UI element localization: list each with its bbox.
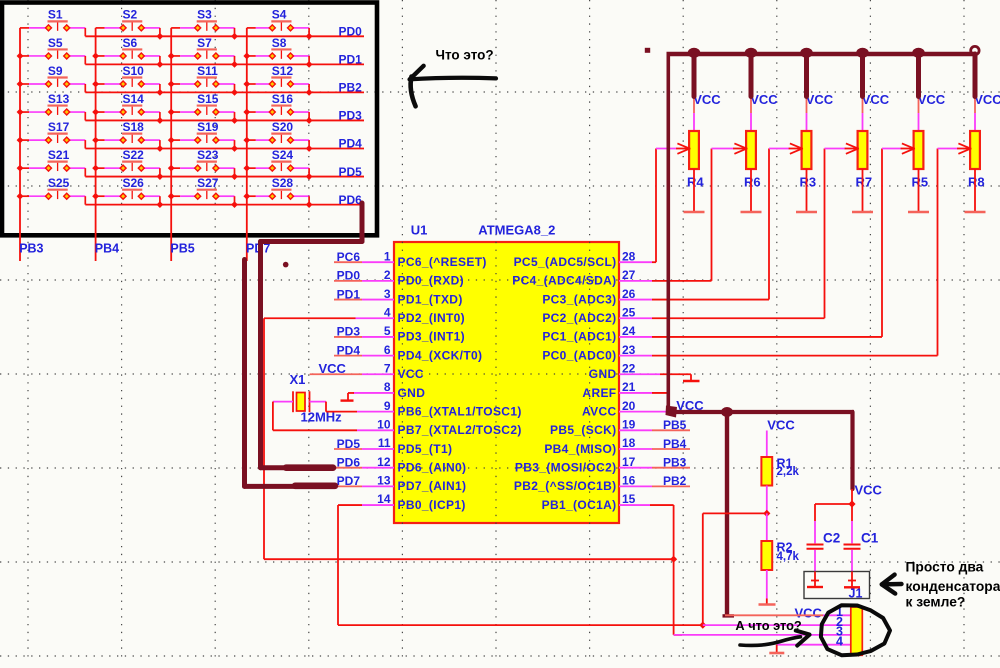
wire row PD1 <box>85 61 364 68</box>
svg-text:Просто два: Просто два <box>906 560 984 575</box>
switch S14 <box>96 106 160 121</box>
svg-text:S5: S5 <box>48 36 63 50</box>
svg-text:VCC: VCC <box>974 92 1000 107</box>
annotation curved arrow at connector <box>740 631 810 646</box>
svg-text:PC2_(ADC2): PC2_(ADC2) <box>542 311 616 325</box>
svg-text:S21: S21 <box>48 148 70 162</box>
svg-text:S14: S14 <box>123 92 145 106</box>
wire crystal left plate to pin 10 (XTAL2) <box>273 402 394 431</box>
switch S2 <box>96 21 160 36</box>
svg-text:PB0_(ICP1): PB0_(ICP1) <box>398 498 466 512</box>
wire pin 13 (PD7) <box>334 485 394 487</box>
svg-text:S26: S26 <box>123 176 145 190</box>
wire arrow into R7 <box>825 143 859 153</box>
switch S13 <box>20 106 85 121</box>
switch S10 <box>96 78 160 93</box>
switch S18 <box>96 134 160 149</box>
wire connector pin 4 <box>777 644 851 646</box>
ground (R7 bottom) <box>852 169 873 212</box>
svg-text:R8: R8 <box>968 175 985 190</box>
switch S22 <box>96 162 160 177</box>
svg-text:2: 2 <box>384 268 391 282</box>
wire pin 27 (PC4) to resistor bank <box>619 149 712 281</box>
svg-text:ATMEGA8_2: ATMEGA8_2 <box>478 223 555 238</box>
svg-text:PD4: PD4 <box>337 343 361 357</box>
svg-text:PB5_(SCK): PB5_(SCK) <box>550 423 617 437</box>
svg-text:14: 14 <box>377 492 391 506</box>
maroon stray dash near bus start <box>645 48 650 53</box>
wire pin 26 (PC3) to resistor bank <box>619 149 769 300</box>
svg-text:S18: S18 <box>123 120 145 134</box>
svg-text:PB2: PB2 <box>663 474 687 488</box>
svg-text:S19: S19 <box>197 120 219 134</box>
wire row PB2 <box>85 89 364 96</box>
svg-text:VCC: VCC <box>918 92 946 107</box>
svg-text:VCC: VCC <box>862 92 890 107</box>
keypad matrix enclosure box <box>2 3 377 236</box>
ground (pin 8 GND) <box>341 393 395 401</box>
svg-text:19: 19 <box>622 418 636 432</box>
wire pin 2 (PD0) <box>334 280 394 282</box>
svg-text:S7: S7 <box>197 36 212 50</box>
junction VCC/C1 <box>848 500 855 507</box>
junction R1/R2 divider tap <box>763 510 770 517</box>
resistor R5 <box>914 97 924 169</box>
svg-text:S25: S25 <box>48 176 70 190</box>
svg-text:27: 27 <box>622 268 636 282</box>
switch S15 <box>171 106 234 121</box>
maroon stray dot near U1 <box>283 262 289 268</box>
svg-text:U1: U1 <box>411 223 428 238</box>
svg-text:S6: S6 <box>123 36 138 50</box>
svg-text:VCC: VCC <box>855 483 883 498</box>
wire column PB3 <box>17 28 24 261</box>
ground (R3 bottom) <box>796 169 817 212</box>
svg-text:PD1: PD1 <box>337 287 361 301</box>
wire PD7 matrix column to U1 pin 13 (thick) <box>245 260 336 487</box>
switch S25 <box>20 190 85 205</box>
svg-text:PD0: PD0 <box>339 25 363 39</box>
svg-text:S11: S11 <box>197 64 218 78</box>
wire pin 16 (PB2) <box>619 485 690 487</box>
svg-text:PB2: PB2 <box>339 81 363 95</box>
svg-text:PD7: PD7 <box>337 474 361 488</box>
svg-text:GND: GND <box>398 386 426 400</box>
wire connector pin 2 <box>703 624 851 626</box>
svg-text:PC4_(ADC4/SDA): PC4_(ADC4/SDA) <box>512 274 616 288</box>
wire pin 20 AVCC <box>619 411 668 413</box>
svg-text:PC6: PC6 <box>337 250 361 264</box>
svg-text:VCC: VCC <box>319 361 347 376</box>
svg-text:S2: S2 <box>123 8 138 22</box>
svg-text:PD1: PD1 <box>339 53 363 67</box>
svg-text:S23: S23 <box>197 148 219 162</box>
svg-text:А что это?: А что это? <box>735 618 802 633</box>
wire VCC to C1/C2 <box>815 489 852 521</box>
switch S1 <box>20 21 85 36</box>
resistor R7 <box>858 97 868 169</box>
wire divider tap to J1 pin 2 <box>703 513 767 625</box>
wire pin 21 AREF to VCC net <box>619 392 670 394</box>
svg-text:S1: S1 <box>48 8 63 22</box>
svg-text:24: 24 <box>622 324 636 338</box>
svg-text:PD5_(T1): PD5_(T1) <box>398 442 453 456</box>
wire arrow into R8 <box>938 143 972 153</box>
junction pin15/pin4 net <box>670 556 677 563</box>
svg-text:PB4: PB4 <box>95 242 119 256</box>
wire pin 28 (PC5) to resistor bank <box>619 149 656 263</box>
switch S11 <box>171 78 234 93</box>
svg-text:PD3: PD3 <box>337 325 361 339</box>
switch S4 <box>247 21 309 36</box>
svg-text:PD0: PD0 <box>337 269 361 283</box>
wire row PD6 <box>85 201 364 208</box>
svg-text:6: 6 <box>384 343 391 357</box>
svg-text:PD4_(XCK/T0): PD4_(XCK/T0) <box>398 348 483 362</box>
wire PD6 matrix row to U1 pin 12 (thick) <box>261 203 363 468</box>
wire VCC bus left drop to AVCC <box>666 54 670 412</box>
annotation arrow at J1 box <box>882 575 902 594</box>
switch S8 <box>247 49 309 64</box>
svg-text:J1: J1 <box>849 587 863 601</box>
svg-text:PC1_(ADC1): PC1_(ADC1) <box>542 330 616 344</box>
svg-text:2,2k: 2,2k <box>777 466 800 478</box>
svg-text:Что это?: Что это? <box>436 48 494 63</box>
svg-text:R4: R4 <box>687 175 704 190</box>
wire pin 12 (PD6) <box>334 467 394 469</box>
ground (pin 22 GND) <box>619 374 700 381</box>
wire pin 19 (PB5) <box>619 429 690 431</box>
wire pin 3 (PD1) <box>334 299 394 301</box>
switch S7 <box>171 49 234 64</box>
svg-text:GND: GND <box>589 367 617 381</box>
svg-text:C2: C2 <box>823 531 840 546</box>
svg-text:20: 20 <box>622 399 636 413</box>
svg-text:PD5: PD5 <box>337 437 361 451</box>
svg-text:PD6: PD6 <box>339 193 363 207</box>
resistor R1 <box>761 431 772 514</box>
svg-text:S3: S3 <box>197 8 212 22</box>
ground (R4 bottom) <box>684 169 705 212</box>
crystal X1 <box>293 391 310 412</box>
annotation hand-drawn circle around connector <box>821 605 890 655</box>
svg-text:PB7_(XTAL2/TOSC2): PB7_(XTAL2/TOSC2) <box>398 423 522 437</box>
resistor R3 <box>802 97 812 169</box>
svg-text:R5: R5 <box>912 175 929 190</box>
wire pin 1 (PC6) <box>334 261 394 263</box>
svg-text:PD3_(INT1): PD3_(INT1) <box>398 330 466 344</box>
svg-text:PD2_(INT0): PD2_(INT0) <box>398 311 466 325</box>
wire row PD3 <box>85 117 364 124</box>
switch S16 <box>247 106 309 121</box>
switch S26 <box>96 190 160 205</box>
svg-text:VCC: VCC <box>767 418 795 433</box>
svg-text:28: 28 <box>622 249 636 263</box>
svg-text:S8: S8 <box>272 36 287 50</box>
svg-text:PD0_(RXD): PD0_(RXD) <box>398 274 465 288</box>
svg-text:S15: S15 <box>197 92 219 106</box>
svg-text:PD6: PD6 <box>337 455 361 469</box>
svg-text:PB6_(XTAL1/TOSC1): PB6_(XTAL1/TOSC1) <box>398 404 522 418</box>
ground (R2 bottom) <box>759 570 776 605</box>
svg-text:VCC: VCC <box>750 92 778 107</box>
resistor R8 <box>970 97 980 169</box>
wire row PD5 <box>85 173 364 180</box>
svg-text:AREF: AREF <box>582 386 616 400</box>
switch S3 <box>171 21 234 36</box>
svg-text:X1: X1 <box>290 372 306 387</box>
switch S6 <box>96 49 160 64</box>
svg-text:R3: R3 <box>800 175 817 190</box>
svg-text:PD3: PD3 <box>339 109 363 123</box>
wire pin 14 PB0_(ICP1) to J1 pin 2 <box>338 505 702 625</box>
svg-text:4: 4 <box>836 635 843 649</box>
switch S17 <box>20 134 85 149</box>
svg-text:AVCC: AVCC <box>582 404 617 418</box>
svg-text:VCC: VCC <box>693 92 721 107</box>
svg-text:PC3_(ADC3): PC3_(ADC3) <box>542 292 616 306</box>
switch S28 <box>247 190 309 205</box>
svg-text:конденсатора: конденсатора <box>906 579 1000 594</box>
resistor R6 <box>746 97 756 169</box>
wire pin 11 (PD5) <box>334 448 394 450</box>
svg-text:S16: S16 <box>272 92 294 106</box>
wire pin 25 (PC2) to resistor bank <box>619 149 825 319</box>
svg-text:10: 10 <box>377 418 391 432</box>
svg-text:PC5_(ADC5/SCL): PC5_(ADC5/SCL) <box>514 255 617 269</box>
svg-text:5: 5 <box>384 324 391 338</box>
svg-text:R7: R7 <box>856 175 873 190</box>
svg-text:PB2_(^SS/OC1B): PB2_(^SS/OC1B) <box>514 479 617 493</box>
svg-text:PB5: PB5 <box>663 418 687 432</box>
svg-text:PB4: PB4 <box>663 437 687 451</box>
svg-text:S27: S27 <box>197 176 219 190</box>
ground (connector pin 4) <box>769 645 784 653</box>
wire row PD0 <box>85 33 364 40</box>
annotation arrow pointing left at matrix <box>410 66 496 107</box>
ground (R8 bottom) <box>965 169 986 212</box>
junction J1 pin 2 net <box>699 622 706 629</box>
svg-text:VCC: VCC <box>398 367 424 381</box>
svg-text:C1: C1 <box>861 531 879 546</box>
switch S9 <box>20 78 85 93</box>
wire arrow into R5 <box>882 143 915 153</box>
connector body (bottom header) <box>851 607 863 655</box>
svg-text:PC0_(ADC0): PC0_(ADC0) <box>542 348 616 362</box>
switch S24 <box>247 162 309 177</box>
wire arrow into R6 <box>712 143 748 153</box>
switch S12 <box>247 78 309 93</box>
svg-text:S4: S4 <box>272 8 287 22</box>
capacitor C1 <box>844 521 861 572</box>
wire column PD7 <box>243 28 250 261</box>
svg-text:PC6_(^RESET): PC6_(^RESET) <box>398 255 487 269</box>
wire arrow into R3 <box>769 143 803 153</box>
ground (C2 bottom, inside J1 box) <box>807 572 823 588</box>
svg-text:S9: S9 <box>48 64 63 78</box>
annotation text "Просто два конденсатора к земле?" <box>906 560 1000 610</box>
svg-text:S12: S12 <box>272 64 294 78</box>
resistor R2 <box>761 513 772 570</box>
svg-text:S28: S28 <box>272 176 294 190</box>
wire crystal right plate to pin 9 (XTAL1) <box>310 402 395 412</box>
svg-text:S22: S22 <box>123 148 145 162</box>
wire pin 4 PD2_(INT0) to J1 pin 3 <box>264 318 674 559</box>
svg-text:к земле?: к земле? <box>906 595 966 610</box>
wire pin 6 (PD4) <box>334 355 394 357</box>
svg-text:9: 9 <box>384 399 391 413</box>
wire pin 17 (PB3) <box>619 467 690 469</box>
svg-text:PB3_(MOSI/OC2): PB3_(MOSI/OC2) <box>515 460 617 474</box>
wire pin 5 (PD3) <box>334 336 394 338</box>
wire pin 15 PB1_(OC1A) to J1 pin 3 <box>619 505 682 635</box>
svg-text:PB4_(MISO): PB4_(MISO) <box>544 442 616 456</box>
svg-text:15: 15 <box>622 492 636 506</box>
svg-text:4,7k: 4,7k <box>777 551 800 563</box>
switch S21 <box>20 162 85 177</box>
wire row PD4 <box>85 145 364 152</box>
svg-text:R6: R6 <box>744 175 761 190</box>
svg-text:23: 23 <box>622 343 636 357</box>
svg-text:VCC: VCC <box>806 92 834 107</box>
switch S5 <box>20 49 85 64</box>
switch S20 <box>247 134 309 149</box>
capacitor C2 <box>807 521 824 572</box>
svg-text:PB5: PB5 <box>170 242 194 256</box>
ground (R5 bottom) <box>908 169 929 212</box>
wire pin 24 (PC1) to resistor bank <box>619 149 882 337</box>
svg-text:PB3: PB3 <box>663 455 687 469</box>
wire pin 7 VCC <box>310 373 394 375</box>
svg-text:S10: S10 <box>123 64 145 78</box>
svg-text:S13: S13 <box>48 92 70 106</box>
wire column PB5 <box>168 28 175 261</box>
wire VCC to lower right <box>668 407 854 616</box>
wire arrow into R4 <box>656 143 690 153</box>
svg-text:PD5: PD5 <box>339 165 363 179</box>
switch S27 <box>171 190 234 205</box>
switch S23 <box>171 162 234 177</box>
svg-text:PD7_(AIN1): PD7_(AIN1) <box>398 479 467 493</box>
wire pin 18 (PB4) <box>619 448 690 450</box>
wire VCC bus (thick dark red) <box>667 46 980 96</box>
svg-text:1: 1 <box>384 249 391 263</box>
svg-text:S17: S17 <box>48 120 70 134</box>
resistor R4 <box>689 97 699 169</box>
svg-text:PD1_(TXD): PD1_(TXD) <box>398 292 463 306</box>
svg-text:PB3: PB3 <box>19 242 43 256</box>
svg-text:PB1_(OC1A): PB1_(OC1A) <box>542 498 617 512</box>
svg-text:S20: S20 <box>272 120 294 134</box>
svg-text:S24: S24 <box>272 148 294 162</box>
ground (C1 bottom, inside J1 box) <box>844 572 860 588</box>
switch S19 <box>171 134 234 149</box>
svg-text:PD6_(AIN0): PD6_(AIN0) <box>398 460 467 474</box>
op-amp U1 body (ATMEGA8_2 IC outline) <box>394 242 619 523</box>
connector J1 box <box>804 572 870 599</box>
wire connector pin 3 <box>674 634 851 636</box>
wire pin 23 (PC0) to resistor bank <box>619 149 938 356</box>
svg-text:PD4: PD4 <box>339 137 363 151</box>
junction AVCC (pin 20) <box>666 406 678 418</box>
wire connector pin 1 (VCC) <box>725 614 851 616</box>
ground (R6 bottom) <box>741 169 762 212</box>
wire column PB4 <box>92 28 99 261</box>
